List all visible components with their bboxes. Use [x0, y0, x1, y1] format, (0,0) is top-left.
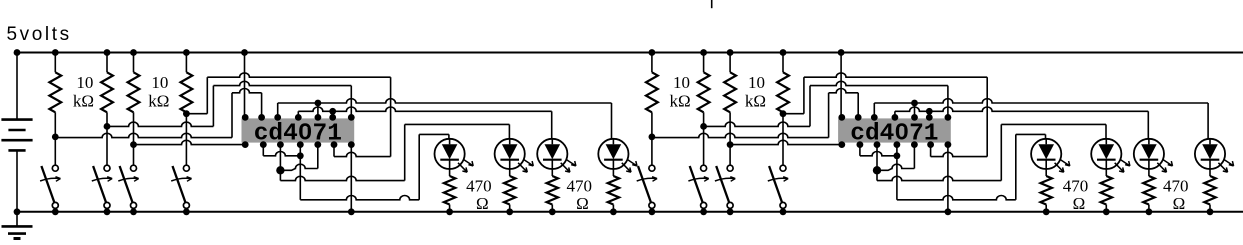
svg-text:470: 470 [1063, 177, 1089, 196]
svg-text:470: 470 [466, 177, 492, 196]
svg-text:5volts: 5volts [7, 24, 72, 45]
svg-text:kΩ: kΩ [73, 92, 94, 111]
svg-text:Ω: Ω [1173, 194, 1186, 213]
svg-text:10: 10 [748, 73, 765, 92]
svg-text:10: 10 [76, 73, 93, 92]
svg-text:Ω: Ω [576, 194, 589, 213]
svg-text:10: 10 [151, 73, 168, 92]
svg-text:Ω: Ω [1073, 194, 1086, 213]
svg-text:10: 10 [673, 73, 690, 92]
svg-text:kΩ: kΩ [745, 92, 766, 111]
svg-text:470: 470 [566, 177, 592, 196]
svg-text:Ω: Ω [476, 194, 489, 213]
svg-text:470: 470 [1163, 177, 1189, 196]
svg-text:kΩ: kΩ [148, 92, 169, 111]
svg-text:kΩ: kΩ [670, 92, 691, 111]
